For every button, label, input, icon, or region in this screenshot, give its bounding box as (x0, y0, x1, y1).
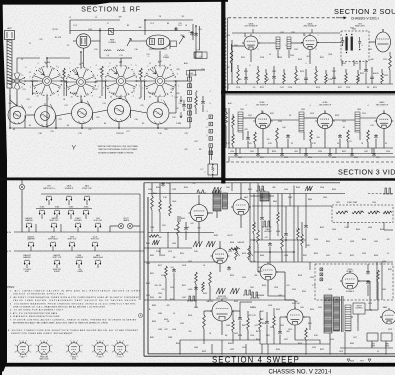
tube filament heater row5 (76, 260, 82, 265)
matching network box (208, 164, 218, 175)
wire (245, 344, 247, 354)
wire drop (257, 148, 259, 152)
note about switch positions (72, 145, 76, 150)
wire (293, 252, 295, 262)
tube V302 6CB6 (315, 111, 334, 128)
junction (99, 30, 101, 32)
junction (144, 19, 146, 21)
wire (183, 100, 185, 103)
tube filament heater row1 (46, 196, 52, 201)
wire heater return (139, 194, 141, 300)
wire B+ bus (144, 182, 340, 184)
wire (365, 73, 367, 84)
wire (239, 302, 241, 311)
wire (68, 200, 70, 205)
wire (69, 20, 71, 34)
resistor R410 (203, 315, 206, 329)
wire (165, 278, 167, 300)
capacitor C213 (370, 76, 374, 81)
wire (359, 132, 361, 140)
junction (46, 57, 48, 59)
tube V303 6AG5 (375, 112, 394, 129)
terminal strip TS2 (209, 115, 213, 155)
wire (177, 216, 179, 222)
wire (371, 71, 373, 76)
wire (333, 80, 335, 84)
capacitor C210 (332, 76, 336, 81)
capacitor C491 (172, 268, 176, 273)
wire (277, 224, 279, 236)
wire (247, 131, 249, 136)
switch wafer S1D (141, 62, 179, 102)
junction (212, 174, 213, 175)
wire (53, 227, 55, 232)
antenna input coil L1 (7, 40, 12, 88)
resistor R512 (297, 228, 300, 240)
tube filament heater row3 (51, 223, 57, 228)
wire (309, 50, 311, 65)
wire (31, 80, 38, 82)
resistor R490 (149, 235, 159, 238)
wire (81, 102, 82, 104)
resistor R493 (259, 318, 262, 330)
wire v3 (277, 194, 279, 213)
wire v7 (305, 194, 307, 225)
wire (347, 142, 349, 148)
wire (231, 40, 233, 84)
wire (227, 84, 229, 89)
tube filament heater row1 (66, 196, 72, 201)
wire (317, 42, 341, 44)
oscillator adjust arrow (179, 36, 184, 44)
wire v6 (297, 206, 299, 228)
wire (380, 316, 382, 318)
wire (110, 225, 118, 227)
resistor R462 (301, 234, 304, 246)
wire (281, 250, 283, 262)
wire (305, 81, 307, 84)
switch arm arrow S1A (38, 70, 44, 75)
wire (137, 80, 145, 82)
wire (66, 81, 68, 96)
transformer T202 secondary winding (351, 37, 353, 51)
wire (268, 295, 285, 297)
wire (240, 183, 242, 199)
wire (247, 141, 249, 148)
wire (269, 195, 274, 197)
wire (369, 281, 371, 300)
tube V404 6SN7GTB vert output (210, 299, 234, 321)
wire sync bus (148, 193, 345, 195)
resistor R305 (310, 130, 313, 142)
resistor R470 (377, 270, 380, 282)
transformer L440 (260, 192, 269, 201)
wire (294, 325, 296, 340)
transformer T401 (213, 191, 221, 211)
wire drop (373, 148, 375, 152)
junction (293, 251, 295, 253)
wire (85, 214, 87, 219)
wire (359, 60, 361, 70)
wire (371, 80, 373, 84)
coil L11 (104, 50, 111, 51)
wire (83, 52, 85, 68)
wire (183, 108, 185, 111)
terminal strip HV (320, 268, 323, 281)
wire (303, 132, 305, 140)
resistor R411 (247, 318, 250, 330)
wire (151, 183, 153, 196)
capacitor C407 (227, 266, 231, 271)
wire (24, 115, 26, 128)
high voltage cage (dashed box) (315, 264, 393, 300)
tube socket 6BQ6 (66, 340, 83, 358)
tube socket 6SN6 GA (36, 340, 53, 358)
wire (159, 183, 161, 200)
wire to trap (252, 205, 332, 207)
wire (100, 57, 121, 59)
socket pin1 mark (22, 341, 24, 343)
wire (192, 24, 194, 40)
resistor R304 (276, 128, 279, 142)
wire HV top (310, 261, 393, 263)
wire h-link 2 (254, 251, 294, 253)
section 2 bottom border (221, 91, 395, 94)
wire (144, 20, 146, 35)
wire drop (305, 148, 307, 152)
wire (195, 108, 197, 114)
wire (276, 142, 278, 148)
wire (259, 271, 261, 273)
wire (129, 40, 146, 42)
capacitor C14 (190, 31, 194, 36)
wire (56, 127, 190, 129)
wire (267, 148, 269, 154)
wire (157, 124, 159, 128)
wire (258, 42, 276, 44)
oscillator coil L25 (147, 100, 169, 125)
wire (232, 32, 340, 34)
terminal strip TS1 (188, 77, 192, 122)
wire (267, 292, 269, 296)
wire (70, 214, 72, 219)
capacitor C476b (366, 280, 370, 285)
wire HV vert 2 (381, 262, 383, 300)
wire (239, 311, 241, 316)
socket pin1 mark (73, 341, 75, 343)
resistor R306 (347, 130, 350, 142)
tube V403 vert mult (211, 247, 230, 264)
wire TS to box (209, 148, 211, 164)
wire (385, 341, 387, 348)
wire (81, 124, 83, 129)
wire (329, 344, 331, 355)
wire (175, 81, 177, 113)
tube filament heater row5 (95, 260, 101, 265)
resistor R200 (237, 69, 240, 84)
section 3 boundary dashed line (226, 161, 393, 163)
capacitor C305 (338, 134, 342, 139)
wire (266, 312, 268, 320)
wire stub (325, 70, 327, 74)
tube V301 6CB6 (253, 111, 272, 128)
section 2 top dashed border (228, 17, 336, 19)
wire drop (235, 148, 237, 152)
transformer T402 secondary (334, 297, 340, 331)
wire (169, 183, 171, 204)
wire (261, 110, 263, 114)
wire (301, 246, 303, 262)
deflection yoke plug J2 (381, 333, 392, 341)
wire (202, 105, 204, 112)
transformer T303 (355, 112, 360, 132)
wire heater bus ext (148, 232, 214, 234)
transformer T402 primary (324, 295, 332, 333)
capacitor C460 (268, 242, 272, 247)
capacitor C3330 (328, 152, 332, 157)
wire (190, 69, 205, 71)
resistor R303 (254, 132, 257, 144)
capacitor C204 (272, 75, 276, 80)
tube V201 6AU6 (242, 34, 260, 50)
wire (269, 194, 271, 241)
wire stub (345, 69, 347, 73)
wire (333, 71, 335, 76)
wire (56, 113, 72, 116)
wire (93, 110, 108, 113)
wire (71, 246, 73, 251)
wire vert row 2 (144, 261, 218, 263)
wire (240, 215, 242, 228)
wire (303, 33, 305, 36)
wire (294, 300, 296, 309)
wire (140, 80, 142, 98)
wire (144, 81, 146, 100)
wire (319, 340, 321, 344)
capacitor C410 (238, 316, 242, 321)
wire (324, 129, 326, 148)
section 2 left dashed border (225, 18, 227, 91)
wire (309, 317, 311, 330)
capacitor C15 (174, 27, 178, 31)
wire (357, 322, 359, 331)
switch arm arrow S1B (72, 70, 78, 75)
wire (120, 58, 122, 66)
wire (243, 117, 255, 119)
transformer T403 width coil (345, 305, 351, 331)
resistor VERT LIN control (248, 246, 251, 260)
capacitor C13 (194, 32, 198, 37)
wire (261, 221, 263, 240)
tube V203 6T8 (oval) (376, 29, 391, 52)
resistor R19 inside box (212, 165, 214, 173)
waveform (saw) (216, 288, 225, 294)
wire (269, 247, 271, 262)
wire (324, 110, 326, 114)
waveform (saw) (212, 187, 221, 193)
switch arm arrow S1D (150, 69, 156, 74)
wire (249, 183, 251, 206)
tube V2 oscillator-mixer (oval envelope) (146, 35, 170, 49)
wire v2 (261, 194, 263, 217)
wire (169, 42, 171, 49)
tube socket 6S4 (92, 340, 109, 358)
junction (212, 164, 213, 165)
wire (335, 148, 337, 154)
resistor R495 (202, 282, 205, 292)
wire (46, 106, 48, 129)
wire stub (315, 66, 317, 70)
potentiometer arm HEIGHT control (237, 253, 240, 256)
wire (225, 108, 227, 112)
wire (358, 280, 370, 282)
wire (211, 344, 213, 354)
wire (60, 224, 62, 232)
wire (297, 240, 299, 262)
wire (203, 340, 205, 344)
wire (97, 264, 99, 268)
resistor R211 (345, 73, 348, 84)
wire drop (329, 148, 331, 152)
waveform (pulse) (250, 292, 259, 298)
resistor R454 (383, 211, 392, 214)
wire (303, 316, 310, 318)
tube V1 RF amp (shielded) (73, 34, 94, 52)
waveform (pulse) (262, 221, 271, 227)
wire (231, 44, 233, 50)
junction (9, 127, 11, 129)
wire (382, 29, 384, 32)
wire stub (265, 69, 267, 73)
tube filament heater row2 (83, 210, 89, 215)
capacitor C511 (284, 232, 288, 237)
resistor R17 (195, 96, 198, 108)
wire drop (281, 148, 283, 152)
wire (27, 114, 35, 116)
wire (293, 186, 295, 253)
junction (269, 251, 271, 253)
wire (262, 129, 264, 148)
junction (80, 51, 82, 53)
wire antenna down (9, 88, 11, 128)
wire (360, 117, 377, 119)
wire (221, 321, 223, 335)
wire (385, 348, 387, 355)
wire (179, 216, 181, 222)
wire (273, 328, 275, 344)
section 1 top border (0, 0, 228, 5)
wire (204, 310, 212, 312)
wire (21, 190, 23, 232)
wire (221, 340, 223, 355)
wire (288, 50, 290, 58)
wire (228, 108, 230, 148)
transformer T301 (238, 112, 243, 132)
wire (231, 183, 233, 191)
wire (209, 286, 211, 300)
wire (28, 227, 30, 232)
wire v4 (285, 206, 287, 232)
AGC arrow 2 (180, 112, 182, 118)
resistor R22 (101, 66, 104, 78)
wire (257, 183, 259, 230)
wire (291, 42, 303, 44)
wire (339, 139, 341, 148)
switch wafer S1C (102, 62, 140, 102)
wire (266, 325, 268, 344)
wire (216, 211, 218, 218)
scan grain filter definition (0, 0, 1, 1)
wire (56, 264, 58, 268)
resistor R404 (177, 222, 180, 236)
wire stub (283, 69, 285, 73)
resistor R217 (230, 50, 233, 64)
wire (101, 78, 103, 96)
wire (228, 147, 393, 149)
wire (35, 224, 37, 232)
capacitor C162 (161, 182, 165, 187)
wire (367, 264, 369, 270)
capacitor C220 in T202 (341, 37, 344, 46)
junction (157, 127, 159, 129)
wire (9, 95, 11, 100)
section 4 bottom frame (double line) (144, 183, 395, 357)
wire (133, 225, 140, 227)
wire (285, 299, 295, 301)
4.5 MC trap (dashed box) (332, 205, 393, 223)
wire (279, 325, 281, 330)
wire (41, 193, 95, 195)
wire yoke return (340, 347, 393, 349)
resistor R402 (159, 200, 162, 212)
wire stub (245, 68, 247, 72)
junction (285, 239, 287, 241)
wire (377, 300, 379, 310)
wire (176, 80, 188, 82)
wire (177, 236, 179, 248)
wire (36, 208, 92, 210)
capacitor C475 (366, 270, 370, 275)
capacitor C3282 (280, 152, 284, 157)
capacitor C3236 (234, 152, 238, 157)
wire (80, 97, 82, 103)
wire (239, 321, 241, 330)
wire (225, 126, 227, 148)
tube V402 6U8 (231, 197, 251, 215)
wire (367, 285, 369, 296)
tube V202 6AU6 (301, 34, 319, 50)
wire (121, 57, 132, 59)
switch wafer S1A (29, 63, 64, 100)
wire (250, 50, 252, 62)
wire (131, 110, 148, 113)
wire (203, 311, 205, 315)
wire v1 (253, 194, 255, 223)
ratio detector transformer T202 (dashed box) (341, 31, 369, 62)
resistor R203 (265, 73, 268, 84)
wire (249, 206, 251, 262)
wire (dashed) (368, 193, 393, 195)
wire (232, 128, 234, 134)
resistor HEIGHT control (235, 246, 238, 260)
wire (185, 222, 187, 226)
coil L15 bottom (194, 52, 202, 58)
wire (228, 83, 393, 85)
wire (48, 200, 50, 205)
capacitor C303 (286, 134, 290, 139)
wire (70, 30, 190, 32)
waveform (pulse) (187, 296, 196, 301)
